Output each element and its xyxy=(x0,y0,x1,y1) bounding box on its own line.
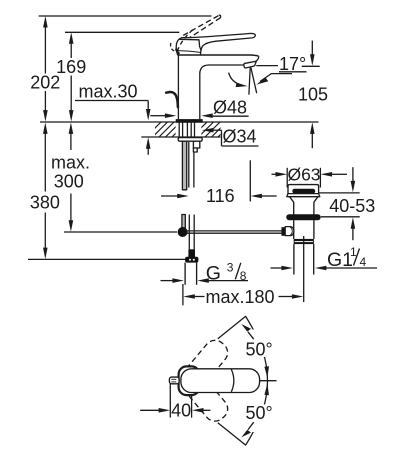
svg-text:40-53: 40-53 xyxy=(329,196,375,216)
dashed handle rotated -50 (lower) xyxy=(180,369,232,425)
handle grip divider xyxy=(231,369,234,391)
mounting bracket nub xyxy=(193,148,197,152)
svg-text:Ø48: Ø48 xyxy=(213,98,247,118)
svg-text:Ø34: Ø34 xyxy=(223,126,257,146)
dashed raised lever tip xyxy=(219,15,221,18)
dimension O48 xyxy=(150,98,248,118)
rotation extension line upper xyxy=(218,316,246,339)
G3/8 label xyxy=(206,261,247,285)
17deg underline xyxy=(279,71,307,73)
spout nose curve xyxy=(256,56,258,61)
handle body capsule (top view) xyxy=(181,369,260,393)
17deg leader to outlet xyxy=(256,65,278,67)
svg-text:3: 3 xyxy=(227,261,234,275)
dimension G1 1/4 xyxy=(271,266,378,271)
counter hatching right xyxy=(192,122,233,137)
dimension 40-53 xyxy=(319,167,376,240)
svg-text:380: 380 xyxy=(30,192,60,212)
aerator outlet (17 deg tilted) xyxy=(244,61,256,68)
svg-text:300: 300 xyxy=(54,172,84,192)
counter bottom line xyxy=(141,136,220,138)
pop-up rod upper segment xyxy=(182,141,186,190)
dimension O63 xyxy=(272,165,348,188)
O-ring seal (dark band) xyxy=(286,214,320,220)
counter hatching left xyxy=(146,122,187,137)
lever knuckle lower-left thick edge xyxy=(176,49,180,54)
water angle: vertical line xyxy=(249,68,250,95)
svg-text:50°: 50° xyxy=(246,403,273,423)
svg-text:116: 116 xyxy=(206,186,235,206)
lever handle (solid, side view) xyxy=(176,33,255,55)
faucet body left edge xyxy=(177,55,179,119)
lever knuckle seam xyxy=(178,51,201,53)
drain centerline (max.180 right ref) xyxy=(303,236,305,302)
lever knuckle top edge and front face xyxy=(180,39,202,50)
counter top line xyxy=(40,121,319,123)
handle center tick xyxy=(260,380,277,382)
50 deg upper leader with arrowhead xyxy=(248,332,254,339)
50 deg lower leader with arrowhead xyxy=(248,422,254,429)
svg-text:40: 40 xyxy=(171,401,191,421)
svg-text:105: 105 xyxy=(298,85,328,105)
handle front nub xyxy=(169,377,179,384)
svg-text:max.180: max.180 xyxy=(206,287,275,307)
svg-text:Ø63: Ø63 xyxy=(287,165,320,185)
rotation extension line lower xyxy=(218,423,246,446)
neck taper xyxy=(290,197,319,203)
clevis connector xyxy=(285,227,294,236)
dashed arc left of knuckle xyxy=(170,43,175,51)
faucet body right edge xyxy=(199,73,201,119)
svg-text:50°: 50° xyxy=(246,339,273,359)
svg-text:4: 4 xyxy=(360,255,367,269)
drain body upper xyxy=(293,202,295,215)
clevis knob (dark) xyxy=(281,227,285,236)
svg-text:8: 8 xyxy=(240,269,247,283)
arc arrowhead upper (points down to tick) xyxy=(264,366,269,378)
arc arrowhead lower (points up to tick) xyxy=(264,384,269,396)
dashed pivot arc through knuckle xyxy=(177,28,194,51)
faucet body outline (white fill) xyxy=(178,55,259,119)
dimension G3/8 arrows xyxy=(161,278,249,283)
G3/8 fitting nut xyxy=(185,257,198,263)
mounting nut bar xyxy=(178,138,202,142)
svg-text:G: G xyxy=(206,262,221,284)
faucet base plate (dark) xyxy=(176,119,203,123)
dimension max.30 xyxy=(75,82,151,155)
max.300 reference line to hose junction xyxy=(64,231,177,233)
spout underside and inner corner xyxy=(200,65,244,73)
horizontal pop-up rod to drain xyxy=(186,230,282,232)
dimension 40 xyxy=(140,384,210,421)
G1 1/4 label xyxy=(327,245,367,271)
tailpipe xyxy=(293,244,295,274)
pop-up rod lower segment xyxy=(182,215,185,229)
stopper cap (dark) xyxy=(292,189,315,194)
thread band (dark) xyxy=(294,239,314,244)
shank through counter xyxy=(179,122,194,137)
dimension 169 xyxy=(56,32,86,121)
dashed handle rotated +50 (upper) xyxy=(180,336,232,392)
rod-to-drain junction xyxy=(178,227,188,237)
dimension max.180 xyxy=(183,287,303,307)
dashed raised lever (upper edge) xyxy=(183,15,219,35)
extension line top of lever (169 ref) xyxy=(65,31,179,33)
17deg leader to tilted stream with arrowhead xyxy=(260,74,292,82)
water angle: 17deg tilted line xyxy=(251,68,257,94)
supply hose lower segment xyxy=(188,215,190,250)
faucet top / spout top edge xyxy=(178,55,258,56)
dimension 202 xyxy=(30,16,60,122)
dimension 380 xyxy=(30,122,60,259)
pop-up waste flange xyxy=(288,185,319,194)
drain body lower xyxy=(293,220,295,239)
dimension 105 xyxy=(298,41,328,149)
dimension max.300 xyxy=(51,122,90,231)
mounting bracket xyxy=(193,141,199,148)
flange skirt xyxy=(287,194,320,197)
flow arc with arrowhead xyxy=(229,73,242,86)
svg-text:max.30: max.30 xyxy=(79,82,138,102)
supply hose upper segment xyxy=(188,142,190,188)
pull-rod hook left of body xyxy=(166,92,178,107)
dimension 116 xyxy=(161,186,277,206)
380 bottom reference line xyxy=(28,258,194,260)
svg-text:17°: 17° xyxy=(279,54,306,74)
dimension O34 xyxy=(202,126,259,146)
extension line top of raised lever (202 ref) xyxy=(39,15,212,17)
svg-text:169: 169 xyxy=(56,57,86,77)
handle collar (top view) xyxy=(179,366,200,395)
spout outlet extension line (116 right ref) xyxy=(249,160,251,201)
G3/8 fitting neck xyxy=(188,249,195,257)
hose tail xyxy=(184,263,186,285)
spout height ref line (105 top) xyxy=(302,65,320,67)
swing arc xyxy=(246,317,268,445)
extension line below hose (max.180 left ref) xyxy=(182,284,184,305)
svg-text:max.: max. xyxy=(51,152,90,172)
dashed raised lever (lower edge) xyxy=(187,18,221,40)
white mask over arc behind 50 deg labels xyxy=(243,330,279,358)
